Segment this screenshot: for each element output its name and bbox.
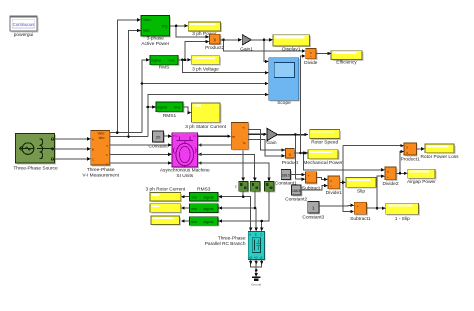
arrow into 3 ph Power display (185, 24, 189, 27)
display rotor current row2 (150, 204, 182, 214)
svg-text:Gain1: Gain1 (240, 47, 253, 53)
wire Subtract out to Divide1 in1 (316, 177, 325, 179)
wire net Iabc riser (110, 31, 266, 137)
display Rotor Speed (310, 130, 341, 146)
wire machine rotor c net (198, 163, 269, 179)
svg-text:Vabc: Vabc (143, 18, 151, 22)
RMS1 block (156, 102, 184, 119)
wire demux out1 to Product in1 (248, 129, 282, 150)
RMS3 block row3 (mirrored) (189, 217, 219, 227)
svg-text:x: x (330, 179, 332, 183)
svg-text:x: x (406, 151, 408, 155)
RMS3 block row1 (mirrored) (189, 193, 219, 203)
arrow into Gain1 (238, 38, 242, 41)
subtract Subtract (302, 172, 321, 192)
current measurement block Ic (rotated) (265, 182, 276, 193)
svg-text:Three-Phase Source: Three-Phase Source (13, 166, 58, 172)
svg-text:SI Units: SI Units (176, 173, 193, 179)
svg-text:Display1: Display1 (282, 47, 301, 53)
svg-text:rms: rms (191, 196, 197, 200)
wire Divide2 output net (396, 152, 405, 174)
svg-text:Divide2: Divide2 (383, 181, 399, 187)
wire Constant2 to Divide1 in2 (301, 186, 325, 190)
wire source phase C (55, 158, 89, 160)
svg-text:3-phase: 3-phase (147, 36, 165, 42)
arrow into RMS input (146, 58, 150, 61)
svg-text:A: A (249, 233, 251, 237)
svg-text:x: x (310, 51, 312, 55)
display rotor current row1 (150, 193, 182, 203)
svg-text:c2: c2 (260, 255, 263, 259)
display Display1 (273, 35, 311, 53)
arrow into Product2 in1 (206, 35, 210, 38)
arrow into Active Power Iabc (137, 29, 141, 32)
svg-text:Te: Te (243, 141, 247, 145)
svg-text:rms: rms (191, 220, 197, 224)
svg-text:Product2: Product2 (205, 45, 225, 51)
demux (machines measurement) block (231, 122, 249, 150)
Three-Phase V-I Measurement block (82, 131, 119, 179)
svg-text:1: 1 (312, 206, 315, 211)
wire Divide1 output net (340, 146, 402, 212)
svg-text:Parallel RC Branch: Parallel RC Branch (205, 241, 246, 247)
wire net Product2 output (220, 40, 303, 51)
wire Gain output net (0, 0, 1, 1)
wire net PQ output (170, 26, 207, 37)
svg-text:188.5: 188.5 (282, 174, 291, 178)
wire V-I a to machine (110, 144, 170, 146)
svg-text:C: C (260, 233, 262, 237)
svg-text:20: 20 (156, 135, 161, 140)
svg-text:3 ph Stator Current: 3 ph Stator Current (185, 124, 226, 130)
svg-text:Three-Phase: Three-Phase (218, 235, 246, 241)
svg-text:powergui: powergui (14, 32, 33, 38)
junction dot Iabc riser (127, 135, 130, 138)
3-phase Active Power block U1 (141, 16, 171, 48)
wire RMS3 row2 to display (183, 207, 189, 209)
wire source phase B (55, 148, 89, 150)
svg-text:Mechanical Power: Mechanical Power (303, 160, 343, 166)
svg-text:Scope: Scope (277, 100, 291, 106)
wire net RMS1 output (183, 107, 190, 113)
svg-text:x: x (406, 146, 408, 150)
product Product1 (401, 143, 421, 163)
wire RMS3 row1 to display (183, 196, 189, 198)
svg-text:Active Power: Active Power (141, 41, 169, 47)
svg-text:Constant2: Constant2 (285, 197, 307, 203)
svg-text:Divide1: Divide1 (326, 190, 342, 196)
svg-text:Iabc: Iabc (143, 28, 150, 32)
junction dot RMS to Product2 (184, 59, 187, 62)
display Slip (346, 178, 377, 195)
svg-text:PQ: PQ (162, 25, 168, 29)
svg-text:÷: ÷ (330, 185, 332, 189)
wire Constant3 to Subtract1 in1 (319, 204, 352, 207)
wire V-I c to machine (110, 162, 170, 164)
svg-text:c: c (235, 185, 237, 189)
gain Gain (266, 128, 277, 146)
arrow at machine rotor port c (198, 161, 202, 164)
svg-text:Product1: Product1 (401, 157, 421, 163)
svg-text:÷: ÷ (387, 176, 389, 180)
display Airgap Power (407, 169, 436, 185)
current measurement block Ia (rotated) (235, 182, 249, 193)
wire machine rotor a net (198, 145, 244, 179)
Asynchronous Machine SI Units block (160, 133, 210, 179)
svg-text:Constant3: Constant3 (302, 215, 324, 221)
wire machine rotor b net (198, 154, 255, 179)
svg-text:Rotor Speed: Rotor Speed (311, 140, 338, 146)
wire net Gain1 output (252, 40, 271, 62)
junction dot Gain1 out (263, 39, 266, 42)
svg-text:Product: Product (282, 160, 299, 166)
svg-text:rms: rms (191, 207, 197, 211)
junction dot Product2 out (222, 39, 225, 42)
svg-text:signal: signal (151, 59, 161, 63)
divide Divide1 (326, 176, 342, 196)
junction dot RMS to scope (181, 59, 184, 62)
svg-text:b2: b2 (254, 255, 258, 259)
powergui block (10, 16, 39, 38)
svg-text:Iabc: Iabc (99, 136, 105, 140)
arrow at machine rotor port b (198, 153, 202, 156)
subtract Subtract1 (350, 202, 371, 222)
junction dot Iabc-RMS1 (147, 106, 150, 109)
svg-text:Constant: Constant (148, 144, 168, 150)
divide Divide (304, 49, 318, 66)
RMS3 block row2 (mirrored) (189, 204, 219, 214)
display 1 - Slip (386, 203, 420, 222)
constant Constant (Tm) (148, 131, 168, 150)
display Efficiency (331, 51, 363, 66)
wire Subtract1 output net (367, 176, 384, 208)
svg-text:RMS: RMS (159, 64, 170, 70)
Three-Phase Parallel RC Branch block (205, 231, 266, 260)
svg-text:Continuous: Continuous (13, 22, 35, 27)
arrow into Product2 in2 (206, 40, 210, 43)
svg-text:3 ph Voltage: 3 ph Voltage (192, 66, 219, 72)
junction dots Vabc net (141, 82, 144, 85)
ground symbol (251, 277, 261, 286)
arrow into RMS1 input (152, 105, 156, 108)
wire current meas b to RMS3 row2 and RC branch (221, 191, 257, 229)
wire RMS3 row3 to display (183, 220, 189, 222)
arrow into Efficiency (328, 52, 332, 55)
svg-text:B: B (92, 147, 94, 151)
scope Scope (269, 58, 300, 106)
constant Constant3 (302, 201, 324, 220)
svg-text:1 - Slip: 1 - Slip (395, 216, 410, 222)
wire Product1 to Rotor Power Loss (416, 148, 422, 150)
svg-text:3 ph Rotor Current: 3 ph Rotor Current (146, 186, 186, 192)
arrow into scope in2 (265, 71, 269, 74)
svg-text:signal: signal (204, 220, 214, 224)
svg-text:V-I Measurement: V-I Measurement (82, 172, 119, 178)
wire RC branch to ground (251, 260, 262, 277)
svg-text:RMS1: RMS1 (163, 113, 177, 119)
RMS block (150, 55, 179, 70)
display Mechanical Power (303, 150, 343, 166)
current measurement block Ib (rotated) (250, 182, 261, 193)
product Product (282, 149, 299, 166)
svg-text:signal: signal (204, 207, 214, 211)
wire net RMS output (178, 42, 266, 73)
arrow into scope in4 (265, 93, 269, 96)
display 3 ph Power (188, 22, 222, 37)
Three-Phase Source block (13, 134, 58, 172)
wire V-I b to machine (110, 153, 170, 155)
svg-text:rms: rms (174, 106, 180, 110)
display rotor current row3 (151, 216, 181, 226)
wire current meas c to RMS3 row3 and RC branch (221, 191, 269, 229)
svg-text:Three-Phase: Three-Phase (87, 167, 115, 173)
svg-text:Tm: Tm (173, 134, 178, 138)
svg-text:Subtract1: Subtract1 (350, 216, 371, 222)
svg-text:188.5: 188.5 (292, 189, 301, 193)
svg-text:a2: a2 (249, 255, 253, 259)
wire net Vabc riser (110, 20, 266, 133)
svg-text:signal: signal (157, 106, 167, 110)
svg-text:rms: rms (169, 59, 175, 63)
svg-text:Airgap Power: Airgap Power (407, 179, 436, 185)
constant Constant2 (285, 185, 307, 203)
svg-text:Vabc: Vabc (97, 132, 104, 136)
arrow into Divide in1 (302, 49, 306, 52)
wire demux out2 to Gain (248, 133, 264, 135)
arrow into scope in1 (265, 60, 269, 63)
arrow at machine rotor port a (198, 143, 202, 146)
svg-text:Efficiency: Efficiency (336, 60, 357, 66)
wire source phase A (55, 138, 89, 140)
wire current meas a to RMS3 row1 and RC branch (221, 191, 251, 229)
svg-text:x: x (387, 170, 389, 174)
junction dot PQ (175, 25, 178, 28)
svg-text:Rotor Power Loss: Rotor Power Loss (420, 154, 459, 160)
arrow into Active Power Vabc (137, 18, 141, 21)
product Product2 (205, 34, 225, 51)
wire Product output net (294, 56, 382, 170)
svg-text:m: m (232, 135, 235, 139)
svg-text:Divide: Divide (304, 60, 318, 66)
svg-text:÷: ÷ (310, 55, 312, 59)
svg-text:B: B (255, 233, 257, 237)
svg-text:Asynchronous Machine: Asynchronous Machine (160, 168, 210, 174)
arrow into 3 ph Voltage display (188, 58, 192, 61)
constant Constant1 (275, 170, 297, 187)
svg-text:Gain: Gain (266, 140, 276, 146)
display 3 ph Stator Current (185, 103, 226, 130)
wire demux out3 to Product in2 (248, 140, 282, 156)
svg-text:RMS3: RMS3 (197, 186, 211, 192)
arrow into Display1 (269, 38, 273, 41)
svg-text:Ground: Ground (251, 283, 261, 287)
display Rotor Power Loss (420, 144, 459, 160)
wire Constant to Tm (164, 135, 170, 137)
svg-text:signal: signal (204, 196, 214, 200)
svg-text:Slip: Slip (357, 189, 365, 195)
arrow into stator current display (188, 111, 192, 114)
wire Constant1 to Subtract in1 (291, 174, 303, 176)
wire machine m to demux (198, 135, 229, 137)
display 3 ph Voltage (191, 56, 221, 73)
gain Gain1 (240, 35, 253, 53)
wire net Divide output (316, 53, 329, 55)
svg-text:A: A (92, 137, 94, 141)
divide Divide2 (383, 167, 399, 187)
arrow into scope in3 (265, 82, 269, 85)
